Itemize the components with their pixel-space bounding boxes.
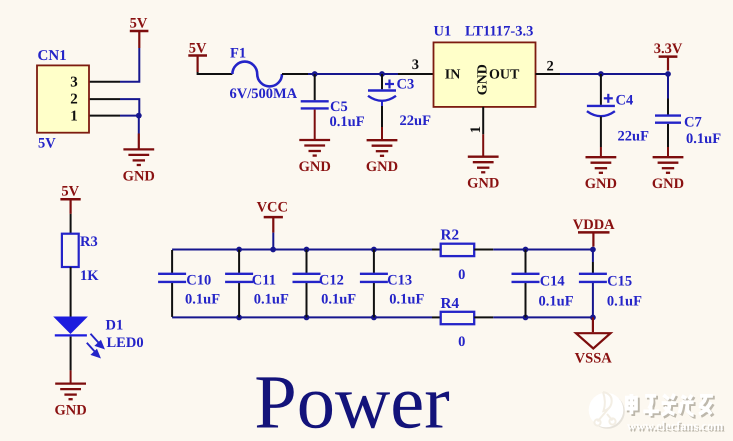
svg-text:1: 1 [468,126,484,133]
svg-text:Power: Power [254,360,449,441]
svg-text:0.1uF: 0.1uF [321,292,356,308]
svg-text:C12: C12 [319,273,344,289]
svg-text:F1: F1 [230,45,246,61]
svg-text:C13: C13 [387,273,412,289]
svg-text:1K: 1K [80,268,99,284]
svg-text:C3: C3 [397,76,415,92]
svg-text:GND: GND [475,64,490,95]
svg-text:2: 2 [547,59,554,75]
svg-text:22uF: 22uF [400,113,432,129]
svg-text:OUT: OUT [489,67,520,82]
svg-text:LED0: LED0 [107,335,144,351]
svg-text:0: 0 [458,267,465,283]
svg-text:GND: GND [123,168,155,184]
svg-text:3: 3 [412,57,419,73]
svg-text:VCC: VCC [257,200,288,216]
svg-text:C14: C14 [540,274,565,290]
svg-text:5V: 5V [38,135,56,151]
svg-text:5V: 5V [130,16,148,32]
svg-text:0.1uF: 0.1uF [607,294,642,310]
svg-text:0.1uF: 0.1uF [330,114,365,130]
svg-text:R4: R4 [441,295,460,312]
svg-text:R3: R3 [80,234,98,250]
svg-text:3: 3 [70,74,78,90]
svg-text:0.1uF: 0.1uF [185,292,220,308]
svg-text:5V: 5V [61,183,79,199]
svg-text:C4: C4 [616,93,634,109]
svg-text:LT1117-3.3: LT1117-3.3 [465,24,533,40]
svg-text:0: 0 [458,334,465,350]
svg-text:VDDA: VDDA [573,217,615,233]
svg-text:3.3V: 3.3V [654,41,683,57]
svg-text:U1: U1 [434,24,452,40]
svg-text:5V: 5V [189,40,207,56]
svg-text:GND: GND [652,176,684,192]
svg-text:GND: GND [585,176,617,192]
svg-text:1: 1 [70,108,78,124]
svg-text:C5: C5 [330,99,348,115]
svg-text:0.1uF: 0.1uF [254,292,289,308]
svg-text:R2: R2 [441,227,460,244]
svg-text:www.elecfans.com: www.elecfans.com [627,419,724,433]
svg-text:C10: C10 [186,273,211,289]
svg-text:CN1: CN1 [38,48,67,64]
svg-text:GND: GND [299,159,331,175]
svg-text:GND: GND [467,176,499,192]
svg-text:C11: C11 [252,273,276,289]
svg-text:C7: C7 [684,114,702,130]
svg-text:0.1uF: 0.1uF [686,131,721,147]
svg-text:GND: GND [54,403,86,419]
svg-text:GND: GND [366,159,398,175]
svg-text:VSSA: VSSA [575,351,613,367]
svg-text:IN: IN [445,67,461,82]
svg-text:0.1uF: 0.1uF [539,294,574,310]
svg-text:C15: C15 [607,274,632,290]
svg-text:22uF: 22uF [618,129,650,145]
svg-text:6V/500MA: 6V/500MA [230,86,298,102]
svg-text:2: 2 [70,92,78,108]
svg-text:0.1uF: 0.1uF [389,292,424,308]
svg-text:D1: D1 [106,318,124,334]
